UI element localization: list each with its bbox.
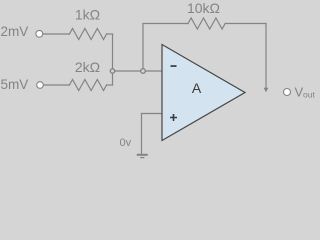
output arrowhead	[264, 88, 269, 92]
ground bar 1	[137, 154, 148, 156]
wire R3 right to output branch	[225, 23, 266, 25]
ground bar 2	[140, 157, 144, 159]
wire input V2	[43, 84, 69, 86]
svg-text:2mV: 2mV	[1, 24, 29, 39]
wire R1 to bus	[107, 33, 113, 35]
svg-text:1kΩ: 1kΩ	[75, 6, 100, 22]
resistor R3 10kΩ zigzag	[188, 18, 225, 29]
wire output branch vertical	[265, 24, 267, 89]
svg-text:0v: 0v	[120, 137, 132, 149]
svg-text:A: A	[192, 80, 202, 96]
terminal V1	[36, 30, 43, 37]
wire summing bus vertical	[112, 34, 114, 85]
wire feedback to R3 left	[143, 23, 188, 25]
svg-text:10kΩ: 10kΩ	[187, 0, 220, 16]
svg-text:2kΩ: 2kΩ	[75, 59, 100, 75]
resistor R2 2kΩ zigzag	[69, 80, 106, 91]
op-amp plus sign	[170, 114, 177, 121]
terminal V2	[37, 82, 44, 89]
node junction ring (summing bus tap)	[110, 69, 114, 73]
resistor R1 1kΩ zigzag	[69, 29, 106, 40]
terminal Vout	[284, 89, 291, 96]
svg-text:5mV: 5mV	[1, 77, 29, 92]
wire input V1	[42, 33, 69, 35]
wire feedback vertical	[142, 24, 144, 72]
op-amp minus sign	[171, 65, 177, 67]
wire bus to inverting input	[113, 70, 162, 72]
wire R2 to bus	[107, 84, 113, 86]
node junction ring (feedback joins inverting input)	[141, 69, 146, 74]
wire non-inverting input	[142, 113, 162, 115]
wire to ground	[141, 114, 143, 154]
svg-text:out: out	[303, 90, 315, 100]
op-amp U1	[162, 45, 245, 141]
